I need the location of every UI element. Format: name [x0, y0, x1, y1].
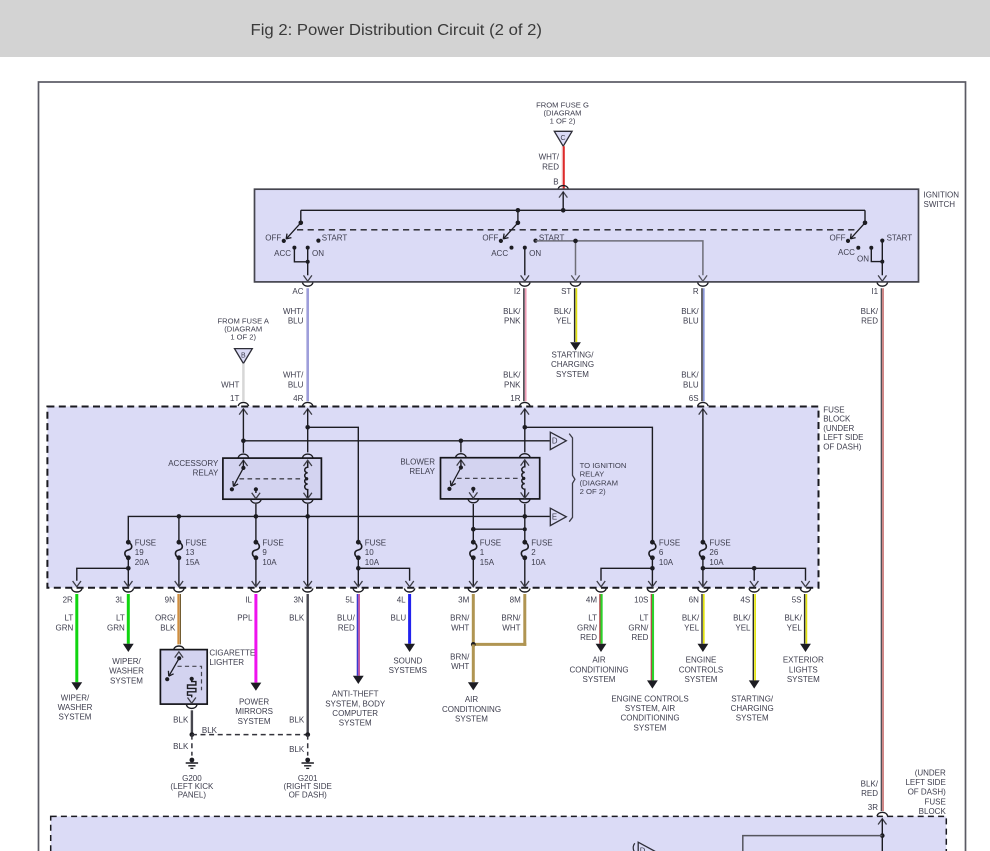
link between blower outputs: [471, 527, 527, 532]
label BLK/PNK (upper): [503, 307, 521, 326]
svg-text:BLK/: BLK/: [503, 307, 521, 316]
accessory relay coil output bump (bottom): [302, 500, 313, 504]
switch S3 ON contact: [857, 246, 873, 264]
connector triangle (partial) inside lower fuse block: [633, 842, 654, 851]
svg-text:FUSE: FUSE: [531, 538, 552, 547]
svg-text:IL: IL: [245, 596, 252, 605]
svg-text:AC: AC: [292, 287, 303, 296]
wire 4L BLU to sound systems: [404, 594, 415, 652]
svg-text:CONDITIONING: CONDITIONING: [442, 705, 501, 714]
svg-text:SYSTEM: SYSTEM: [339, 719, 372, 728]
svg-text:LEFT SIDE: LEFT SIDE: [823, 433, 863, 442]
switch S2 feed drop: [517, 210, 519, 223]
wire blower relay switch output to fuse 1: [472, 504, 474, 542]
svg-text:BLK/: BLK/: [861, 307, 879, 316]
wire ON contact S1 to AC output: [304, 248, 312, 282]
connector bump cavity 9N at fuse block bottom edge: [165, 588, 185, 604]
label BLOWER RELAY: [400, 457, 435, 476]
fuse F10 10A: [355, 538, 386, 566]
wire 3N BLK to ground junction: [307, 594, 309, 735]
connector bump cavity 8M at fuse block bottom edge: [510, 588, 530, 604]
connector bump cavity 5S at fuse block bottom edge: [792, 588, 811, 604]
svg-text:(DIAGRAM: (DIAGRAM: [580, 478, 618, 487]
accessory relay switch output bump (bottom): [251, 500, 262, 504]
wire BRN/WHT below junction with arrow: [468, 644, 479, 690]
fuse block box (dashed): [47, 407, 818, 588]
svg-text:OF DASH): OF DASH): [823, 442, 862, 451]
svg-text:ENGINE: ENGINE: [686, 656, 717, 665]
label LT GRN (2R): [56, 614, 74, 633]
svg-text:SYSTEM: SYSTEM: [455, 715, 488, 724]
wire 1T feed inside fuse block to accessory relay: [242, 409, 244, 453]
svg-text:8M: 8M: [510, 596, 521, 605]
label BLK/YEL (5S): [784, 614, 802, 633]
switch S2 pivot: [516, 221, 521, 226]
svg-text:ON: ON: [857, 255, 869, 264]
svg-text:OFF: OFF: [265, 233, 281, 242]
svg-text:20A: 20A: [135, 558, 150, 567]
label BLU/RED: [337, 614, 356, 633]
wire BLK from cigarette lighter to ground junction: [191, 710, 193, 734]
svg-text:SYSTEMS: SYSTEMS: [389, 666, 427, 675]
label BLK/YEL: [554, 307, 572, 326]
label G200: [170, 774, 214, 800]
fuse 6 output to 4M and 10S: [597, 558, 657, 587]
svg-text:OFF: OFF: [482, 233, 498, 242]
connector bump cavity 3L at fuse block bottom edge: [115, 588, 133, 604]
wire WHT from triangle B to fuse block cavity 1T: [242, 364, 245, 402]
connector bump at cigarette lighter top: [174, 646, 185, 650]
junction bus E at fuse 9: [254, 514, 259, 519]
label BLU: [391, 614, 407, 623]
svg-text:Fig 2: Power Distribution Circ: Fig 2: Power Distribution Circuit (2 of …: [251, 22, 543, 39]
svg-text:E: E: [552, 513, 557, 522]
svg-text:YEL: YEL: [684, 623, 700, 632]
switch S2 ACC contact: [491, 246, 513, 259]
svg-text:2R: 2R: [63, 596, 73, 605]
junction node on bus at switch 2 drop: [516, 208, 521, 213]
svg-text:BLK: BLK: [289, 715, 305, 724]
connector bump cavity 4S at fuse block bottom edge: [740, 588, 759, 604]
label BRN/WHT (lower): [450, 652, 470, 671]
svg-text:PPL: PPL: [237, 614, 253, 623]
svg-text:BLK/: BLK/: [681, 307, 699, 316]
svg-text:(UNDER: (UNDER: [823, 424, 854, 433]
svg-text:SYSTEM: SYSTEM: [556, 370, 589, 379]
label WHT: [221, 380, 239, 389]
blower relay actuation dashed link: [457, 477, 521, 479]
connector bump cavity 4M at fuse block bottom edge: [586, 588, 606, 604]
svg-text:ON: ON: [529, 249, 541, 258]
svg-text:10A: 10A: [262, 558, 277, 567]
svg-text:OF DASH): OF DASH): [908, 788, 947, 797]
contact position dashed line inside ignition switch: [297, 229, 856, 231]
label WHT/BLU (lower): [283, 371, 304, 390]
label BLK (3N lower): [289, 715, 305, 724]
svg-text:RELAY: RELAY: [409, 467, 435, 476]
dashed wire to ground G201: [307, 735, 309, 756]
svg-text:ON: ON: [312, 249, 324, 258]
fuse F6 10A: [649, 538, 680, 566]
cigarette lighter entry arrow and switch: [165, 652, 183, 682]
label FUSE BLOCK (UNDER LEFT SIDE OF DASH): [823, 406, 863, 452]
svg-text:B: B: [241, 353, 246, 360]
label BLK/BLU (upper): [681, 307, 699, 326]
wire 3L LT GRN to wiper/washer system: [123, 594, 134, 652]
svg-text:BLK: BLK: [202, 726, 218, 735]
svg-text:BLOCK: BLOCK: [823, 415, 851, 424]
svg-text:10A: 10A: [659, 558, 674, 567]
svg-text:2 OF 2): 2 OF 2): [580, 487, 606, 496]
connector bump cavity 5L at fuse block bottom edge: [345, 588, 363, 604]
wire 8M BRN/WHT joining 3M: [473, 594, 526, 646]
svg-text:FUSE: FUSE: [924, 797, 945, 806]
accessory relay switch entry arrow: [239, 460, 247, 468]
svg-text:6N: 6N: [689, 596, 699, 605]
label AIR CONDITIONING SYSTEM (4M): [569, 656, 628, 684]
svg-text:CIGARETTE: CIGARETTE: [209, 648, 255, 657]
svg-text:1 OF 2): 1 OF 2): [550, 116, 576, 125]
svg-text:BLU: BLU: [391, 614, 407, 623]
dashed BLK link between ground splices: [192, 734, 308, 736]
wire I2 BLK/PNK from ignition switch to fuse block cavity 1R: [524, 288, 526, 401]
label G201: [284, 774, 332, 800]
svg-text:PANEL): PANEL): [178, 791, 207, 800]
svg-text:TO IGNITION: TO IGNITION: [580, 461, 627, 470]
svg-text:13: 13: [185, 548, 194, 557]
connector bump cavity 3N at fuse block bottom edge: [293, 588, 313, 604]
label BLK (lighter): [173, 715, 189, 724]
wire bus to fuse 13: [178, 516, 180, 542]
svg-text:COMPUTER: COMPUTER: [332, 709, 378, 718]
label FROM FUSE A (DIAGRAM 1 OF 2): [217, 317, 269, 342]
wire 4M LT GRN/RED to air conditioning system: [596, 594, 607, 652]
blower relay box: [441, 458, 540, 499]
svg-text:BLK: BLK: [173, 742, 189, 751]
connector bump output ST at ignition switch bottom edge: [561, 283, 581, 297]
label BLK (3N top): [289, 614, 305, 623]
svg-text:RED: RED: [580, 633, 597, 642]
connector bump cavity 1R at fuse block top edge: [520, 402, 531, 406]
svg-text:CONDITIONING: CONDITIONING: [620, 714, 679, 723]
svg-text:ST: ST: [561, 287, 571, 296]
label terminal B: [553, 177, 558, 186]
svg-text:POWER: POWER: [239, 697, 269, 706]
wire IL PPL to power mirrors system: [251, 594, 262, 691]
svg-text:9: 9: [262, 548, 267, 557]
svg-text:SYSTEM: SYSTEM: [685, 675, 718, 684]
label BRN/WHT (8M): [501, 614, 521, 633]
svg-text:BLOCK: BLOCK: [919, 807, 947, 816]
entry arrow 3R inside lower fuse block: [878, 819, 886, 851]
connector bump cavity 3M at fuse block bottom edge: [458, 588, 478, 604]
blower relay coil pin bump (top): [520, 454, 531, 458]
label LT GRN/RED (10S): [628, 614, 649, 642]
blower relay switch pivot and lever: [447, 465, 463, 491]
connector bump cavity 1T at fuse block top edge: [238, 402, 249, 406]
svg-text:BLK: BLK: [289, 745, 305, 754]
label BLK/YEL (6N): [682, 614, 700, 633]
svg-text:MIRRORS: MIRRORS: [235, 707, 273, 716]
dashed wire to ground G200: [191, 735, 193, 756]
blower relay coil: [521, 460, 529, 498]
svg-text:ACC: ACC: [491, 249, 508, 258]
switch S3 OFF contact: [830, 233, 851, 243]
switch S1 START contact: [316, 233, 347, 242]
svg-text:FUSE: FUSE: [480, 538, 501, 547]
svg-text:BLU: BLU: [683, 317, 699, 326]
switch S2 START contact: [533, 233, 564, 242]
svg-text:R: R: [693, 287, 699, 296]
wire 6N BLK/YEL to engine controls system: [698, 594, 709, 652]
svg-text:2: 2: [531, 548, 536, 557]
label ANTI-THEFT SYSTEM, BODY COMPUTER SYSTEM: [325, 690, 386, 728]
accessory relay actuation dashed link: [240, 478, 304, 480]
svg-text:BLK/: BLK/: [733, 614, 751, 623]
connector bump output I1 at ignition switch bottom edge: [871, 283, 887, 297]
connector bump output R at ignition switch bottom edge: [693, 283, 708, 297]
svg-text:BLK/: BLK/: [861, 779, 879, 788]
wire 4R feed inside fuse block to accessory relay coil: [307, 409, 309, 453]
wire accessory relay coil output to 3N / bus: [307, 504, 309, 587]
svg-text:19: 19: [135, 548, 144, 557]
junction 1R to fuse 6 branch: [523, 425, 528, 430]
wire 10S LT GRN/RED to engine controls system: [647, 594, 658, 689]
svg-text:SOUND: SOUND: [393, 657, 422, 666]
svg-text:AIR: AIR: [465, 695, 479, 704]
svg-text:5L: 5L: [345, 596, 354, 605]
junction node on bus at B drop: [561, 208, 566, 213]
wire 2R LT GRN to wiper/washer system: [71, 594, 82, 690]
wire I1 BLK/RED from ignition switch to lower fuse block cavity 3R: [881, 288, 883, 811]
svg-text:1: 1: [480, 548, 485, 557]
svg-text:BRN/: BRN/: [450, 652, 470, 661]
label EXTERIOR LIGHTS SYSTEM: [783, 656, 824, 684]
label TO IGNITION RELAY (DIAGRAM 2 OF 2): [580, 461, 627, 496]
wire blower relay coil output to fuse 2: [524, 504, 526, 542]
svg-text:CHARGING: CHARGING: [731, 704, 774, 713]
svg-text:BLK/: BLK/: [681, 371, 699, 380]
wire 3N exit arrow: [304, 581, 312, 587]
svg-text:9N: 9N: [165, 596, 175, 605]
label cavity 1T: [230, 394, 239, 403]
svg-text:LT: LT: [116, 614, 125, 623]
label ENGINE CONTROLS SYSTEM, AIR CONDITIONING SYSTEM: [611, 694, 688, 732]
label BLK/PNK (lower): [503, 371, 521, 390]
svg-text:START: START: [887, 233, 913, 242]
connector bump cavity 4R at fuse block top edge: [302, 402, 313, 406]
ground symbol G201: [302, 758, 314, 769]
svg-text:RED: RED: [861, 789, 878, 798]
connector bump cavity 6N at fuse block bottom edge: [689, 588, 709, 604]
svg-text:BLK/: BLK/: [682, 614, 700, 623]
switch S2 OFF contact: [482, 233, 503, 243]
svg-text:BLU: BLU: [288, 317, 304, 326]
accessory relay box: [223, 458, 322, 499]
label BLK (G200 stub): [173, 742, 189, 751]
junction ground G200 splice: [190, 732, 195, 737]
label IGNITION SWITCH: [924, 190, 960, 209]
svg-text:SYSTEM: SYSTEM: [59, 713, 92, 722]
svg-text:RED: RED: [861, 317, 878, 326]
label BLK/BLU (lower): [681, 371, 699, 390]
label STARTING/CHARGING SYSTEM (4S): [731, 694, 774, 722]
svg-text:B: B: [553, 177, 558, 186]
switch S1 ACC contact: [274, 246, 296, 259]
wire blower relay switch feed drop: [460, 441, 462, 453]
wire 4R branch to fuse 10: [308, 427, 359, 542]
switch S3 ACC contact: [838, 246, 860, 257]
svg-text:3R: 3R: [868, 803, 878, 812]
label LT GRN/RED (4M): [577, 614, 598, 642]
label cavity 6S: [689, 394, 699, 403]
blower relay switch output contact: [469, 487, 477, 498]
connector triangle D to ignition relay: [550, 432, 566, 449]
svg-text:(UNDER: (UNDER: [915, 768, 946, 777]
svg-text:CHARGING: CHARGING: [551, 360, 594, 369]
svg-text:LT: LT: [65, 614, 74, 623]
svg-text:CONDITIONING: CONDITIONING: [569, 665, 628, 674]
label ENGINE CONTROLS SYSTEM (6N): [679, 656, 723, 684]
svg-text:10A: 10A: [531, 558, 546, 567]
svg-text:YEL: YEL: [556, 317, 572, 326]
svg-text:ACC: ACC: [274, 249, 291, 258]
bus from 1T junction to connector D and blower relay switch: [243, 440, 549, 442]
label STARTING/CHARGING SYSTEM destination: [551, 351, 594, 379]
svg-text:10S: 10S: [634, 596, 648, 605]
svg-text:GRN: GRN: [56, 623, 74, 632]
label AIR CONDITIONING SYSTEM (3M): [442, 695, 501, 723]
wire 6S feed inside fuse block to fuse 26: [702, 409, 704, 542]
fuse F13 15A: [175, 538, 206, 566]
fuse 19 output to 2R and 3L: [73, 558, 133, 587]
svg-text:FUSE: FUSE: [185, 538, 206, 547]
svg-text:ACC: ACC: [838, 248, 855, 257]
svg-text:WHT/: WHT/: [283, 371, 304, 380]
fuse 1 output to 3M: [469, 558, 477, 587]
svg-text:WHT: WHT: [451, 623, 469, 632]
svg-text:15A: 15A: [480, 558, 495, 567]
svg-text:10A: 10A: [365, 558, 380, 567]
connector bump cavity 10S at fuse block bottom edge: [634, 588, 658, 604]
accessory relay coil pin bump (top): [302, 454, 313, 458]
svg-text:FUSE: FUSE: [365, 538, 386, 547]
svg-text:PNK: PNK: [504, 380, 521, 389]
wire 4S BLK/YEL to starting/charging system: [749, 594, 760, 689]
wire START contact S3 to I1 output: [878, 241, 886, 282]
svg-text:LIGHTS: LIGHTS: [789, 665, 818, 674]
svg-text:LT: LT: [640, 614, 649, 623]
connector bump cavity 4L at fuse block bottom edge: [397, 588, 415, 604]
svg-text:RELAY: RELAY: [193, 469, 219, 478]
svg-text:3N: 3N: [293, 596, 303, 605]
svg-text:WASHER: WASHER: [109, 667, 144, 676]
svg-text:BLK/: BLK/: [503, 371, 521, 380]
svg-text:RED: RED: [632, 633, 649, 642]
svg-text:C: C: [560, 135, 565, 142]
svg-text:3L: 3L: [115, 596, 124, 605]
svg-text:SYSTEM, AIR: SYSTEM, AIR: [625, 704, 675, 713]
svg-text:GRN/: GRN/: [628, 623, 649, 632]
wire ON contact S2 to I2 output: [521, 248, 529, 282]
svg-text:D: D: [552, 437, 558, 446]
wire AC WHT/BLU from ignition switch to fuse block cavity 4R: [306, 288, 309, 401]
svg-text:START: START: [322, 233, 348, 242]
supply bus inside ignition switch: [301, 209, 865, 211]
svg-text:WHT/: WHT/: [283, 307, 304, 316]
label WIPER/WASHER SYSTEM (2R): [58, 693, 93, 721]
junction node START-ST: [573, 239, 578, 244]
accessory relay coil: [304, 460, 312, 498]
svg-text:I1: I1: [871, 287, 878, 296]
svg-text:6: 6: [659, 548, 664, 557]
svg-text:OFF: OFF: [830, 233, 846, 242]
wire WHT/RED from triangle C to ignition switch terminal B: [562, 146, 564, 188]
svg-text:ANTI-THEFT: ANTI-THEFT: [332, 690, 379, 699]
fuse F2 10A: [521, 538, 552, 566]
ground symbol G200: [186, 758, 198, 769]
svg-text:FUSE: FUSE: [135, 538, 156, 547]
svg-text:3M: 3M: [458, 596, 469, 605]
svg-text:SYSTEM: SYSTEM: [736, 714, 769, 723]
fuse 2 output to 8M: [521, 558, 529, 587]
svg-text:15A: 15A: [185, 558, 200, 567]
wire ST BLK/YEL to starting/charging system: [570, 288, 581, 350]
junction 4R to fuse 10 branch: [305, 425, 310, 430]
svg-text:YEL: YEL: [735, 623, 751, 632]
label (UNDER LEFT SIDE OF DASH) FUSE BLOCK: [905, 768, 946, 816]
entry arrow 1R inside fuse block: [521, 409, 529, 415]
svg-text:EXTERIOR: EXTERIOR: [783, 656, 824, 665]
junction bus E at blower coil output: [523, 514, 528, 519]
svg-text:SYSTEM: SYSTEM: [634, 723, 667, 732]
svg-text:4L: 4L: [397, 596, 406, 605]
connector bump cavity 6S at fuse block top edge: [698, 402, 709, 406]
svg-text:FUSE: FUSE: [823, 406, 844, 415]
fuse 9 output to IL: [252, 558, 260, 587]
label WHT/RED: [539, 153, 560, 172]
junction blower relay switch feed: [459, 439, 464, 444]
wire 9N ORG/BLK to cigarette lighter: [179, 594, 181, 644]
switch S3 ON-START link wire: [871, 248, 884, 264]
svg-text:10A: 10A: [709, 558, 724, 567]
junction bus E at fuse 13: [177, 514, 182, 519]
fuse F9 10A: [252, 538, 283, 566]
svg-text:LIGHTER: LIGHTER: [209, 658, 244, 667]
fuse 26 output to 6N 4S 5S: [699, 558, 810, 587]
blower relay switch pin bump (top): [456, 454, 467, 458]
junction 3N ground splice: [305, 732, 310, 737]
svg-text:FUSE: FUSE: [659, 538, 680, 547]
svg-text:BLU: BLU: [288, 380, 304, 389]
switch S3 START contact: [880, 233, 912, 242]
switch S2 ON contact: [523, 246, 542, 259]
label FROM FUSE G (DIAGRAM 1 OF 2): [536, 100, 589, 125]
connector triangle E to ignition relay: [550, 508, 566, 525]
connector bump cavity IL at fuse block bottom edge: [245, 588, 261, 604]
connector bump at cigarette lighter bottom: [186, 705, 197, 709]
svg-text:FUSE: FUSE: [709, 538, 730, 547]
switch S3 pivot: [863, 221, 868, 226]
svg-text:SYSTEM: SYSTEM: [787, 675, 820, 684]
svg-text:D: D: [640, 846, 646, 851]
label CIGARETTE LIGHTER: [209, 648, 255, 667]
svg-text:BLK/: BLK/: [554, 307, 572, 316]
blower relay switch output bump (bottom): [468, 499, 479, 503]
connector bump cavity 2R at fuse block bottom edge: [63, 588, 83, 604]
wire 3R distribution inside lower fuse block: [743, 836, 883, 851]
fuse F26 10A: [699, 538, 730, 566]
